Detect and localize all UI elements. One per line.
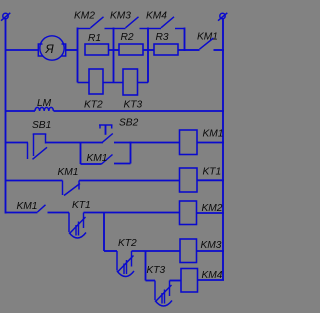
relay coil KT3 (parallel R2): [114, 69, 149, 95]
relay coil KT2 (parallel R1): [78, 69, 114, 94]
node E junction to row6: [103, 213, 105, 252]
wire R group segments: [109, 49, 185, 51]
wire row6 to coil KM3: [132, 250, 181, 252]
svg-text:KM1: KM1: [17, 201, 38, 212]
wire row6 left: [104, 250, 117, 252]
motor armature M (Я): [38, 36, 65, 60]
contact KM4: [148, 17, 185, 29]
resistor R3: [154, 44, 178, 55]
coil KM2: [180, 201, 225, 225]
svg-text:KT2: KT2: [118, 238, 137, 249]
svg-text:SB1: SB1: [32, 120, 51, 131]
wire row5 to coil KM2: [84, 212, 181, 214]
svg-text:R2: R2: [121, 32, 134, 43]
svg-text:KM4: KM4: [146, 11, 167, 22]
contact KT3 timed NC: [155, 281, 172, 307]
svg-text:R1: R1: [88, 33, 101, 44]
pushbutton SB2 (NO start): [99, 125, 113, 142]
svg-text:KT2: KT2: [84, 100, 103, 111]
node D junction vertical: [184, 28, 186, 52]
coil KM4: [181, 269, 224, 293]
node B junction vertical: [113, 28, 115, 83]
svg-text:KT3: KT3: [124, 100, 143, 111]
wire SB row left: [6, 142, 29, 144]
pushbutton SB1 (NC stop): [28, 134, 48, 159]
resistor R2: [119, 44, 143, 55]
wire right bus: [222, 19, 224, 281]
wire row5 left: [6, 212, 38, 214]
terminal X1 top-left: [1, 13, 10, 21]
contact KM1 self-holding branch: [81, 142, 131, 165]
contact KT1 timed NC: [69, 213, 86, 239]
svg-text:KT1: KT1: [203, 167, 222, 178]
wire left bus: [5, 19, 7, 214]
svg-text:LM: LM: [37, 98, 52, 109]
contact KM1 NO (row5): [38, 205, 70, 213]
contact KM2: [78, 17, 114, 29]
wire SB2 to coil KM1: [114, 142, 180, 144]
svg-text:KM1: KM1: [197, 32, 218, 43]
wire SB1 to SB2: [46, 142, 104, 144]
contact KM3: [114, 17, 149, 29]
node A junction vertical: [77, 28, 79, 83]
contact KM1 top-right: [185, 38, 225, 50]
wire row4 left: [6, 180, 63, 182]
contact KM1 NC (row4): [63, 181, 81, 196]
node F junction to row7: [145, 251, 147, 281]
coil KM3: [180, 239, 224, 263]
coil KT1: [180, 168, 225, 192]
svg-text:KM2: KM2: [74, 11, 95, 22]
svg-text:KM1: KM1: [58, 167, 79, 178]
svg-text:R3: R3: [156, 32, 169, 43]
svg-text:KM3: KM3: [110, 11, 131, 22]
svg-text:Я: Я: [45, 42, 55, 56]
wire row7 left: [146, 280, 156, 282]
svg-text:KM2: KM2: [202, 203, 223, 214]
wire row7 to coil KM4: [170, 280, 182, 282]
svg-text:KM4: KM4: [202, 270, 223, 281]
svg-text:KM3: KM3: [201, 240, 222, 251]
svg-text:KT3: KT3: [147, 265, 166, 276]
terminal X2 top-right: [218, 13, 227, 21]
wire row4 to coil KT1: [79, 180, 180, 182]
svg-text:SB2: SB2: [119, 118, 139, 129]
svg-text:KT1: KT1: [72, 200, 91, 211]
coil KM1: [180, 130, 225, 155]
node C junction vertical: [147, 28, 149, 83]
svg-text:KM1: KM1: [203, 129, 224, 140]
resistor R1: [85, 44, 109, 55]
wire armature row left: [6, 49, 39, 51]
contact KT2 timed NC: [117, 251, 134, 277]
wire motor to R group: [66, 49, 78, 51]
inductor LM field winding: [6, 107, 225, 111]
svg-text:KM1: KM1: [87, 153, 108, 164]
